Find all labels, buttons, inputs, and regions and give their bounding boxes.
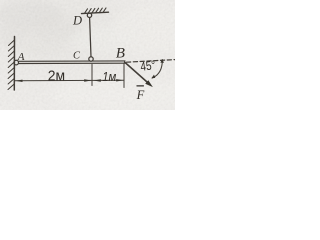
force line at B [125,62,150,84]
wall hatching [8,40,14,90]
F overbar [136,85,144,86]
svg-text:A: A [17,51,25,63]
svg-text:D: D [72,13,82,27]
ring at C [89,57,93,61]
label 2m [48,68,65,85]
wall line at A [13,37,15,91]
dim arrow right at C [84,79,91,81]
ceiling support line at D [82,12,109,13]
paper background [0,0,175,110]
dim arrow left of 1m [94,79,101,81]
svg-text:B: B [116,46,125,62]
dim arrow left at A [15,80,22,82]
force arrowhead [145,80,153,87]
dimension tick under C [91,64,93,85]
angle arc 45 deg [152,60,162,78]
svg-text:F: F [136,88,145,102]
label 45 deg [140,59,157,74]
svg-text:2м: 2м [48,68,65,85]
dimension tick under B [123,64,125,88]
ceiling hatching [85,8,107,13]
pin ring at A [14,60,19,65]
label 1m [102,69,117,84]
dimension line [15,79,124,82]
svg-text:45°: 45° [140,59,157,74]
beam A-B (double line) [19,60,125,62]
svg-text:C: C [73,51,81,62]
rod D-C [90,18,91,57]
ring at D [87,13,91,17]
svg-text:1м: 1м [102,69,117,84]
arc arrowhead top [160,59,164,63]
dashed reference line from B [127,60,176,63]
arc arrowhead bottom [151,75,155,79]
dim arrow right at B [116,79,123,81]
